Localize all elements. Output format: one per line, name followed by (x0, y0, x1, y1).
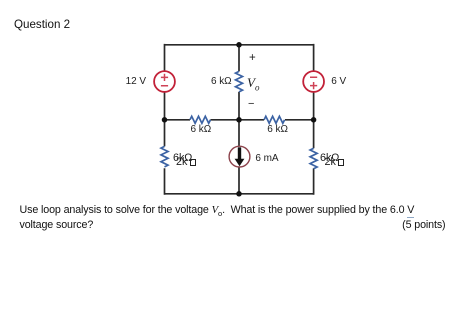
wire: bottom rail (165, 193, 314, 195)
label 6 mA (255, 153, 278, 164)
label plus of Vo (249, 52, 256, 64)
wire: middle rail segments (165, 119, 314, 121)
label minus of Vo (248, 98, 254, 110)
label 12 V (126, 76, 146, 87)
label 2k with missing glyph box (bottom-right resistor, overlapped) (325, 156, 336, 168)
node dot bottom middle (236, 191, 242, 197)
node dot middle left (162, 117, 168, 123)
wire: left branch (164, 44, 166, 195)
label 6 V (331, 76, 346, 87)
resistor R4 vertical bottom left (161, 146, 168, 166)
wire: middle branch (238, 44, 240, 195)
voltage source V1 12V (154, 71, 175, 92)
resistor R1 6k vertical top middle (236, 71, 243, 92)
wire: top rail (165, 44, 314, 46)
label 6 kOhm (left horizontal resistor) (191, 124, 212, 135)
label 2k with missing glyph box (bottom-left resistor, overlapped) (176, 156, 187, 168)
missing glyph box (bottom-left) (190, 159, 196, 166)
question paragraph line 1 (20, 204, 415, 218)
current source I1 6mA (229, 146, 250, 167)
voltage source V2 6V (303, 71, 324, 92)
label 6kOhm (bottom-right resistor, overlapped) (320, 152, 339, 164)
question paragraph line 2 (20, 219, 94, 231)
resistor R5 vertical bottom right (310, 148, 317, 168)
resistor R3 6k horizontal right (264, 116, 284, 123)
missing glyph box (bottom-right) (338, 159, 344, 166)
label 6kOhm (bottom-left resistor, overlapped) (173, 152, 192, 164)
label Vo (247, 75, 259, 93)
label 6 kOhm (right horizontal resistor) (267, 124, 288, 135)
points note (0, 219, 446, 231)
wire: right branch (313, 44, 315, 195)
title "Question 2" (14, 18, 70, 31)
node dot middle right (311, 117, 317, 123)
node dot top middle (236, 42, 242, 48)
label 6 kOhm (top resistor) (211, 76, 232, 87)
resistor R2 6k horizontal left (190, 116, 210, 123)
node dot middle center (236, 117, 242, 123)
